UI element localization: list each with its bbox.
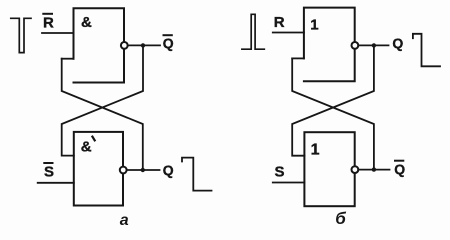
svg-text:1: 1 <box>310 16 318 33</box>
svg-text:&: & <box>81 14 92 31</box>
svg-text:R: R <box>43 15 54 32</box>
svg-text:б: б <box>335 209 346 228</box>
svg-text:S: S <box>44 164 54 181</box>
svg-text:а: а <box>120 212 129 228</box>
svg-text:Q: Q <box>163 35 174 51</box>
svg-text:&: & <box>81 139 92 156</box>
svg-text:Q: Q <box>392 35 403 51</box>
svg-text:S: S <box>275 163 285 180</box>
svg-text:Q: Q <box>394 161 405 177</box>
svg-text:1: 1 <box>311 141 320 158</box>
svg-text:Q: Q <box>163 162 174 178</box>
svg-text:R: R <box>274 14 285 31</box>
